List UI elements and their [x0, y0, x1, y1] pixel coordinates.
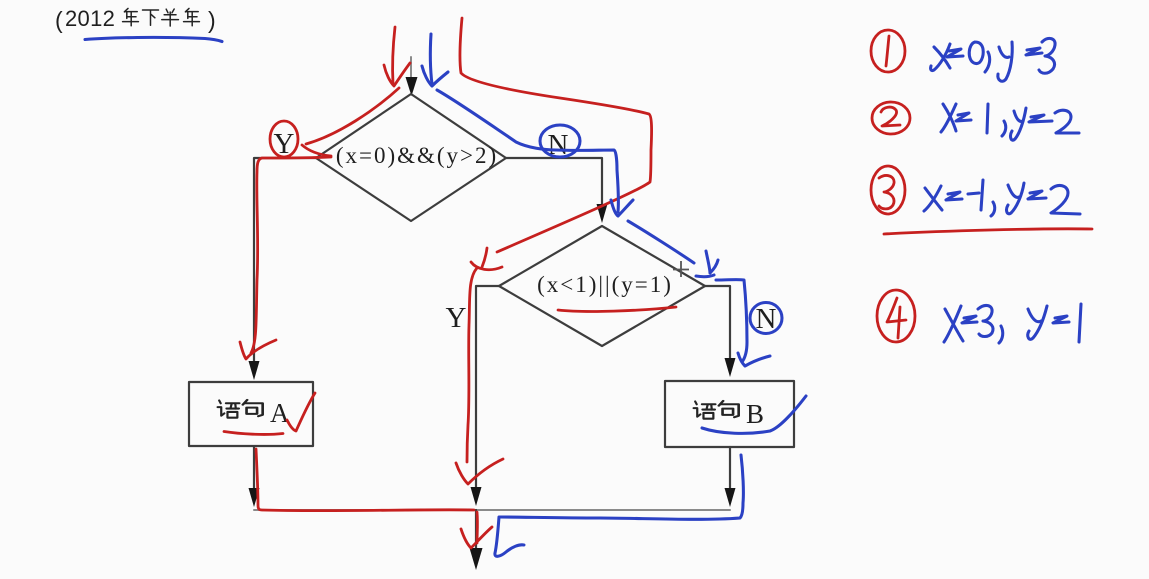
red V arrow at box A entry [240, 340, 276, 359]
blue swoosh on box B [702, 396, 806, 433]
box A [189, 382, 313, 446]
bottom rail [254, 509, 730, 511]
blue below box B to rail and left [500, 455, 743, 519]
blue hook arrow at D2 right vertex [706, 251, 718, 273]
arrowhead into D2 [597, 204, 608, 223]
red below box A to rail [256, 449, 474, 511]
red trace left column down [251, 157, 331, 353]
red V arrow above rail [456, 459, 503, 484]
blue hook at bottom center [495, 517, 524, 556]
box A text 语句A [218, 398, 290, 428]
red underline note 3 [884, 229, 1092, 234]
wire D1-left to A column [254, 158, 316, 362]
svg-text:A: A [270, 398, 290, 428]
arrowhead into box A [249, 361, 260, 380]
red underline under D2 condition [558, 307, 676, 311]
wire below box A [253, 447, 255, 489]
blue ellipse around N1 [540, 125, 580, 157]
svg-text:(: ( [55, 7, 63, 33]
final arrowhead [470, 548, 483, 570]
arrowhead mid rail [471, 487, 482, 506]
red circled 2 [872, 102, 910, 134]
svg-text:Y: Y [446, 302, 467, 334]
red trace 2: from top right [460, 18, 652, 252]
red arrow at Y1 [302, 145, 331, 156]
wire D2-left down to rail [476, 286, 499, 488]
blue trace N2 down to box B [716, 280, 747, 362]
box B [665, 381, 794, 447]
red check in box A [287, 393, 315, 431]
blue trace along D1 upper-right edge to N [437, 90, 618, 212]
diamond D2 [499, 226, 705, 346]
entry arrowhead [406, 77, 418, 96]
final shaft [475, 510, 477, 549]
svg-text:2012: 2012 [65, 6, 115, 31]
wire below box B [729, 447, 731, 489]
red circled 4 [877, 290, 915, 342]
blue arrow top entry [430, 34, 432, 84]
header text (2012 年下半年) [55, 6, 216, 33]
wire D1-right to D2 [506, 158, 602, 205]
blue note 4: x=3,y=1 [944, 304, 1081, 343]
blue ellipse around N2 [750, 303, 782, 334]
svg-text:(x<1)||(y=1): (x<1)||(y=1) [537, 272, 673, 297]
red circled 3 [871, 166, 905, 214]
diamond D1 [316, 94, 506, 221]
box B text 语句B [694, 399, 764, 429]
blue note 1: x=0,y=3 [931, 38, 1055, 81]
header blue underline [85, 37, 222, 41]
svg-text:B: B [746, 399, 764, 429]
wire D2-right to box B [705, 286, 730, 359]
svg-text:): ) [208, 7, 216, 33]
blue trace along D2 upper-right edge [628, 221, 694, 263]
blue note 3: x=-1,y=2 [924, 180, 1080, 216]
arrowhead B to rail [725, 488, 736, 507]
red ellipse around Y1 [270, 121, 298, 157]
red circled 1 [871, 30, 905, 72]
arrowhead A to rail [249, 488, 260, 507]
red trace along D1 upper-left edge [306, 88, 399, 144]
blue note 2: x=1,y=2 [941, 104, 1079, 140]
svg-text:(x=0)&&(y>2): (x=0)&&(y>2) [336, 143, 498, 168]
entry shaft [410, 57, 412, 79]
arrowhead into box B [725, 358, 736, 377]
red final arrow below rail [476, 512, 479, 543]
red wavy down D2-Y column [467, 268, 477, 462]
red underline in box A [224, 432, 283, 435]
red small arrow at D2 left vertex [482, 248, 487, 267]
cursor cross mark [673, 261, 689, 277]
red arrow top entry [393, 27, 395, 84]
